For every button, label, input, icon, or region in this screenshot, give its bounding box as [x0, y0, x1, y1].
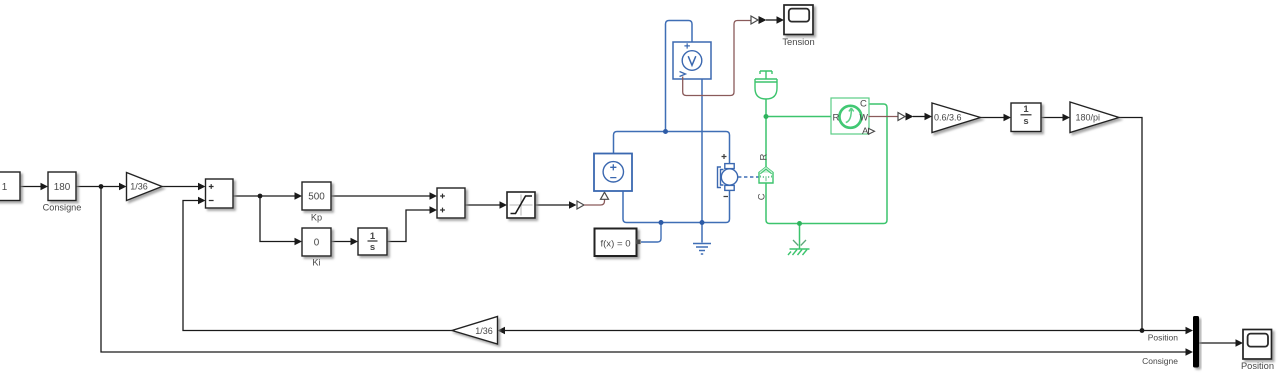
- mux: [1193, 316, 1199, 368]
- svg-text:s: s: [370, 242, 375, 253]
- gain 1/36 feedback (points left): [452, 317, 498, 345]
- arrowhead into gain 180/pi: [1063, 114, 1071, 122]
- node: Position branch: [1140, 328, 1145, 333]
- wire: integrator out up to sum2 +: [387, 210, 431, 242]
- svg-text:1: 1: [1023, 104, 1029, 115]
- svg-text:Position: Position: [1241, 361, 1274, 371]
- wire: gain 180/pi down to Position node: [1119, 118, 1142, 331]
- wire: 180 to gain 1/36: [76, 186, 120, 188]
- svg-text:Consigne: Consigne: [43, 203, 82, 213]
- svg-text:1: 1: [2, 182, 8, 193]
- svg-text:C: C: [757, 193, 768, 200]
- wire: gain 1/36 fb to sum1 minus: [183, 201, 452, 331]
- node: blue junction ground: [700, 220, 705, 225]
- arrowhead into mux input 1: [1186, 327, 1194, 335]
- arrowhead into gain 0.6/3.6: [925, 113, 933, 121]
- svg-text:1/36: 1/36: [130, 182, 148, 192]
- arrowhead into integrator: [351, 238, 359, 246]
- ps wire: sensor W to converter: [869, 116, 899, 118]
- svg-text:Tension: Tension: [782, 36, 814, 47]
- svg-text:180: 180: [54, 182, 71, 193]
- svg-text:Ki: Ki: [312, 258, 320, 268]
- controlled voltage source: [594, 154, 632, 192]
- electrical ground (earth): [693, 244, 711, 255]
- port A triangle: [869, 128, 875, 134]
- svg-text:C: C: [860, 98, 867, 109]
- svg-text:Kp: Kp: [311, 212, 322, 222]
- scope Position: [1241, 330, 1274, 372]
- motor + / - labels: [722, 154, 729, 197]
- ideal rotational motion sensor: [831, 98, 875, 137]
- arrowhead into 180: [41, 183, 49, 191]
- wire: voltage source + to motor + (top rail): [614, 132, 730, 165]
- inertia: [755, 71, 777, 99]
- svg-text:0.6/3.6: 0.6/3.6: [934, 113, 962, 123]
- wire: solver connection: [641, 223, 661, 243]
- wire: saturation to SL-PS converter: [535, 204, 570, 206]
- sum block 1: [206, 179, 234, 208]
- svg-text:f(x) = 0: f(x) = 0: [600, 238, 630, 249]
- wire: PS-SL converter to Tension scope: [766, 19, 778, 21]
- node: Consigne branch: [99, 184, 104, 189]
- arrowhead into sum2 bottom: [430, 206, 438, 214]
- wire: Consigne feedforward to mux input 2: [101, 187, 1186, 353]
- arrowhead into mux input 2: [1186, 348, 1194, 356]
- ps wire: converter to voltage source input: [584, 200, 605, 206]
- arrowhead into sum2 top: [430, 192, 438, 200]
- wire: 0 out to integrator: [331, 241, 352, 243]
- wire: sensor C loop (right side + bottom rail): [766, 99, 887, 224]
- rotational coupling port (house): [759, 167, 773, 183]
- gain 180/pi: [1070, 102, 1119, 133]
- voltmeter: [673, 42, 711, 79]
- wire: electrical ground stem: [701, 223, 703, 243]
- node: PI branch: [258, 194, 263, 199]
- svg-text:R: R: [833, 112, 840, 123]
- gain block 0 Ki: [302, 228, 331, 268]
- wire: sum2 out to saturation: [465, 204, 501, 206]
- constant block 1: [0, 172, 20, 201]
- dc motor: [718, 164, 738, 191]
- svg-text:R: R: [758, 154, 769, 161]
- arrowhead into sum1 -: [198, 197, 206, 205]
- node: green junction mech ground: [797, 221, 802, 226]
- svg-text:1/36: 1/36: [475, 326, 493, 336]
- node: blue junction top rail: [663, 129, 668, 134]
- wire: R horizontal to sensor: [766, 116, 831, 118]
- wire: voltage source - to motor - (bottom rail): [623, 189, 730, 223]
- arrowhead after PS-SL converter (tension): [759, 16, 767, 24]
- gain 0.6/3.6: [932, 103, 981, 133]
- arrowhead into Tension scope: [777, 16, 785, 24]
- svg-text:500: 500: [308, 192, 325, 203]
- mechanical rotational reference: [793, 240, 806, 246]
- wire: mux out to Position scope: [1199, 342, 1237, 344]
- wire: Position node to mux input 1: [1142, 330, 1186, 332]
- arrowhead into sum1 +: [198, 183, 206, 191]
- svg-text:Consigne: Consigne: [1142, 356, 1178, 366]
- svg-text:Position: Position: [1148, 332, 1179, 342]
- wire: 500 out to sum2 +: [331, 195, 431, 197]
- sum block 2: [437, 188, 465, 218]
- wire: sum1 out to 500 with branch: [233, 195, 296, 197]
- wire: gain 1/36 to sum1 +: [162, 186, 199, 188]
- arrowhead into SL-PS converter: [569, 201, 577, 209]
- ps wire: voltmeter output to PS-SL converter: [683, 21, 751, 96]
- arrowhead into 0: [295, 238, 303, 246]
- solver configuration f(x)=0: [595, 229, 641, 257]
- node: green junction inertia/R: [764, 114, 769, 119]
- integrator 1/s: [358, 228, 387, 255]
- wire: constant 1 to 180: [20, 186, 41, 188]
- wire: mech ground stem: [799, 224, 801, 249]
- saturation block: [507, 192, 535, 218]
- wire: integrator 2 to gain 180/pi: [1041, 117, 1064, 119]
- wire: W converter to gain 0.6/3.6: [913, 116, 926, 118]
- node: blue junction solver: [659, 220, 664, 225]
- wire: Position feedback to gain 1/36 fb: [499, 330, 1142, 332]
- arrowhead into gain 1/36: [119, 183, 127, 191]
- ps-simulink converter port (tension): [751, 16, 758, 24]
- gain block 500 Kp: [302, 182, 331, 222]
- gain 1/36: [127, 173, 163, 201]
- constant block 180 (Consigne): [43, 172, 82, 213]
- wire: gain 0.6/3.6 to integrator 2: [981, 117, 1006, 119]
- arrowhead into gain 1/36 fb (points left): [498, 327, 506, 335]
- ps input port of voltage source: [601, 192, 609, 199]
- svg-text:0: 0: [314, 238, 320, 249]
- motor-coupling dashed connection: [738, 176, 759, 178]
- scope Tension: [782, 5, 814, 47]
- arrowhead into integrator 2: [1004, 114, 1012, 122]
- arrowhead into saturation: [500, 201, 508, 209]
- svg-text:s: s: [1023, 116, 1028, 127]
- svg-text:180/pi: 180/pi: [1076, 113, 1101, 123]
- integrator 1/s (2): [1011, 103, 1041, 132]
- wire: top rail up to voltmeter +: [666, 21, 693, 132]
- svg-text:W: W: [860, 112, 869, 122]
- ps-simulink converter port (W): [898, 113, 905, 121]
- wire: branch down to Ki 0: [260, 196, 296, 242]
- wire: voltmeter - down to bottom rail: [692, 70, 702, 223]
- arrowhead after W converter: [906, 113, 914, 121]
- simulink-ps converter port: [577, 201, 584, 209]
- svg-text:1: 1: [370, 231, 376, 242]
- arrowhead into 500: [295, 192, 303, 200]
- arrowhead into Position scope: [1236, 339, 1244, 347]
